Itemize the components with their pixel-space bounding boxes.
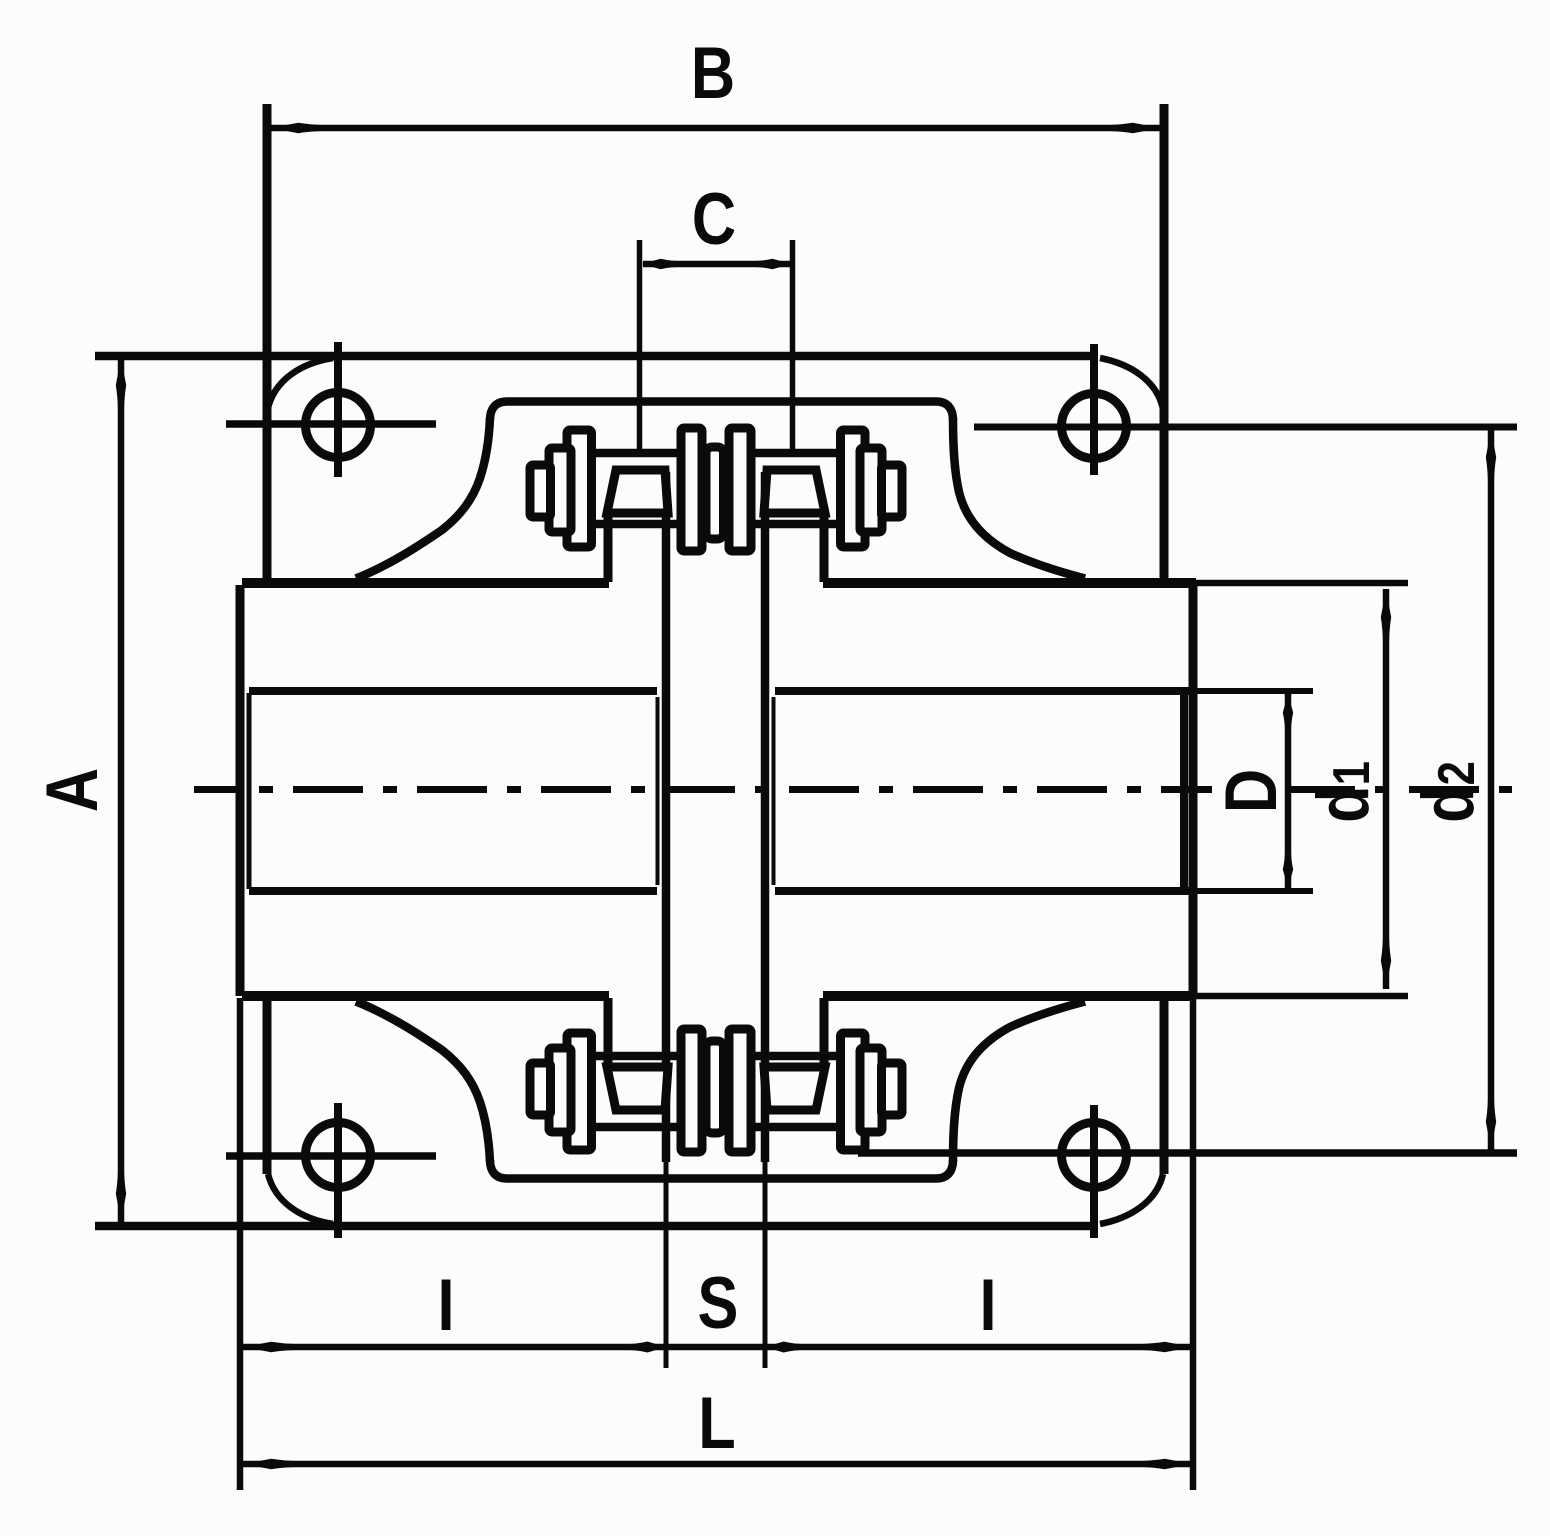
svg-text:C: C (692, 179, 736, 260)
svg-text:S: S (698, 1263, 739, 1344)
svg-text:I: I (437, 1265, 454, 1346)
svg-text:B: B (691, 33, 735, 114)
svg-text:A: A (32, 768, 113, 812)
svg-text:I: I (979, 1265, 996, 1346)
svg-text:D: D (1211, 769, 1292, 813)
svg-text:L: L (698, 1383, 735, 1464)
